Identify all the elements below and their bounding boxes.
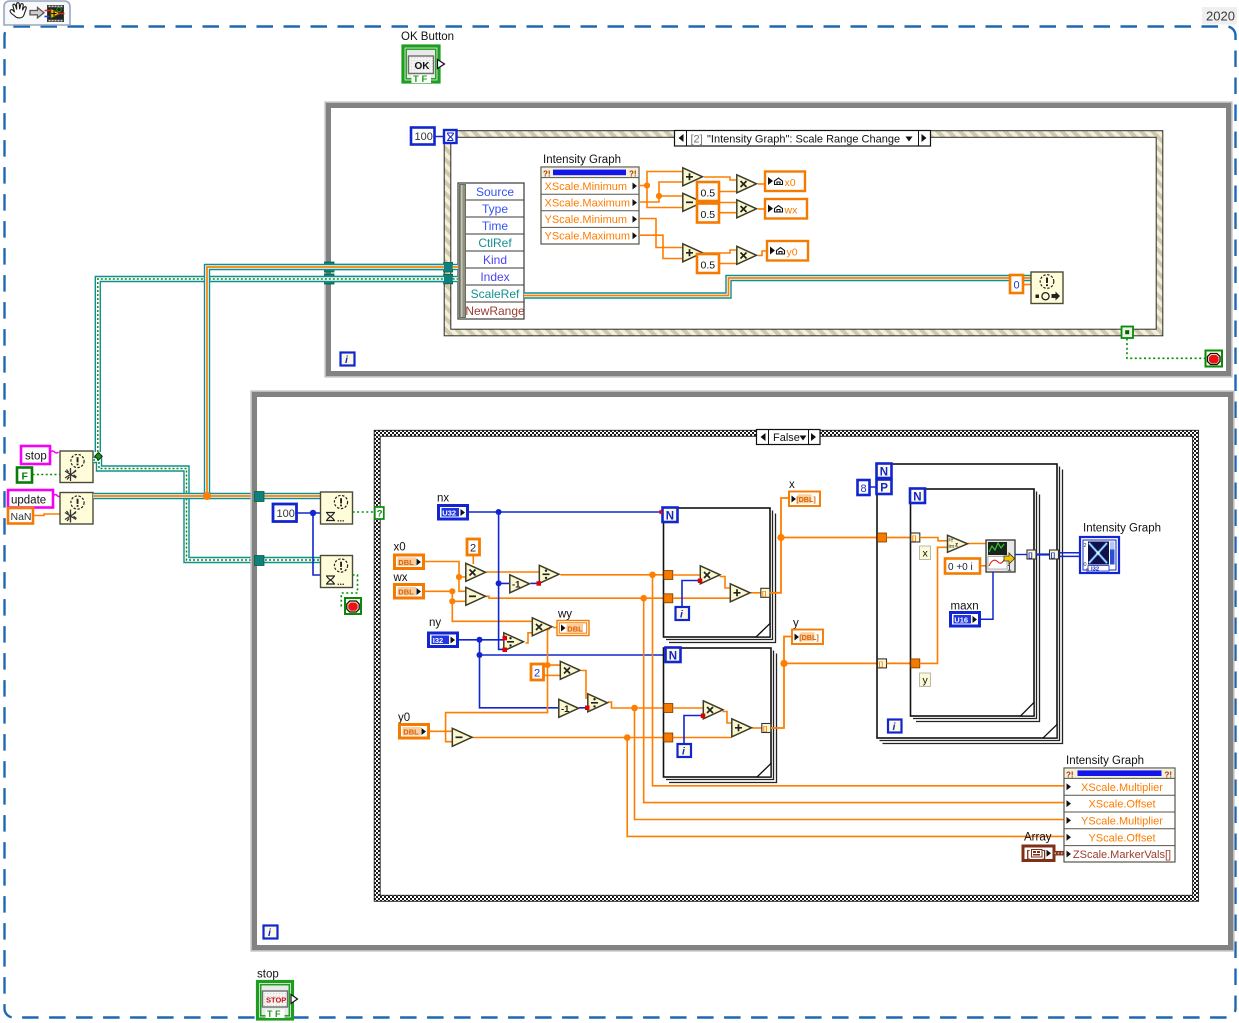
add function (for A) xyxy=(730,584,750,602)
junction dots feed wires xyxy=(624,572,656,741)
coercion mark N (for A) xyxy=(660,510,664,515)
svg-text:wx: wx xyxy=(393,572,408,584)
svg-text:]: ] xyxy=(1043,850,1046,861)
property node 2 (Intensity Graph write) xyxy=(1064,768,1175,862)
hand tool icon xyxy=(10,3,26,18)
junction dot y wire xyxy=(780,660,787,667)
junction dots nx xyxy=(496,509,502,515)
svg-text:Array: Array xyxy=(1024,832,1052,844)
svg-text:update: update xyxy=(11,495,46,507)
2D array wire to intensity graph xyxy=(1059,553,1081,557)
OK Button terminal xyxy=(403,46,445,85)
inner for loop count terminal N xyxy=(910,489,925,504)
tunnel inner in y xyxy=(911,659,920,668)
boolean wire wait1 to case selector xyxy=(353,511,376,513)
wire label x xyxy=(920,546,931,560)
subVI send notification (error ring) xyxy=(1031,272,1063,304)
boolean wire to loop stop terminal xyxy=(1127,339,1205,359)
blue wires nx xyxy=(468,512,661,649)
svg-text:wx: wx xyxy=(784,204,799,216)
coercion dot (for B multiply) xyxy=(701,714,706,719)
tunnel (loop1, stop notifier wire) xyxy=(325,274,335,284)
divide function (wy calc) xyxy=(504,633,524,651)
svg-text:2: 2 xyxy=(470,543,476,555)
wires inside for B xyxy=(673,707,703,709)
feed wires to property node 2 xyxy=(627,575,1064,837)
svg-text:2020: 2020 xyxy=(1206,9,1235,24)
for loop A count terminal N xyxy=(663,508,678,523)
svg-text:YScale.Multiplier: YScale.Multiplier xyxy=(1081,816,1163,828)
add function (y) xyxy=(683,244,703,262)
svg-text:DBL: DBL xyxy=(398,558,414,567)
for loop B frame xyxy=(664,648,777,783)
svg-text:[DBL]: [DBL] xyxy=(799,633,819,642)
control terminal nx (U32) xyxy=(439,506,468,520)
indicator terminal wy (DBL) xyxy=(557,621,589,636)
output tunnel for A xyxy=(761,588,770,597)
wires wy cluster xyxy=(429,628,665,742)
svg-text:re: re xyxy=(949,538,954,544)
svg-text:maxn: maxn xyxy=(951,601,979,613)
multiply function (wy*2) xyxy=(560,661,580,679)
wire for B to y indicator and outer loop xyxy=(771,637,878,729)
control terminal wx (DBL) xyxy=(395,585,424,599)
svg-text:[]: [] xyxy=(879,661,883,668)
svg-text:0: 0 xyxy=(1086,568,1089,574)
constant 2 (y) xyxy=(531,664,544,680)
while loop 1 border xyxy=(325,102,1232,377)
control terminal Array (cluster array) xyxy=(1023,846,1054,861)
for loop A frame xyxy=(664,508,776,643)
tunnel inner in x xyxy=(911,533,920,542)
svg-text:Kind: Kind xyxy=(483,253,507,267)
svg-text:N: N xyxy=(880,467,888,479)
control terminal x0 (DBL) xyxy=(395,555,424,569)
notifier refnum wire (loop1 inside) xyxy=(334,264,444,270)
svg-text:y: y xyxy=(923,675,929,687)
parallelism terminal P xyxy=(877,480,892,495)
multiply function (for A) xyxy=(700,566,720,584)
case selector tunnel ? xyxy=(375,507,384,520)
event structure border xyxy=(444,131,1163,336)
svg-text:y0: y0 xyxy=(787,246,798,258)
svg-text:[2]: [2] xyxy=(691,133,703,145)
svg-text:[]: [] xyxy=(912,535,916,542)
divide function (y step) xyxy=(588,694,608,712)
svg-text:2: 2 xyxy=(534,668,540,680)
while loop 2 border xyxy=(251,391,1234,951)
wires outer to inner loop xyxy=(887,537,911,539)
constant 100 (loop2) xyxy=(273,504,297,522)
svg-text:Time: Time xyxy=(482,219,509,233)
orange wires x cluster xyxy=(425,555,664,621)
tunnel for A in 1 xyxy=(664,571,673,580)
wait for notification node 2 xyxy=(321,556,353,588)
svg-text:0.5: 0.5 xyxy=(701,260,716,272)
svg-text:2: 2 xyxy=(1084,543,1087,549)
svg-text:P: P xyxy=(880,483,888,495)
cluster array wire to property node xyxy=(1055,851,1065,856)
svg-text:N: N xyxy=(913,492,921,504)
outer for loop count terminal N xyxy=(877,464,892,479)
svg-text:T F: T F xyxy=(267,1009,281,1019)
stop notifier refnum wire (dotted teal bundle) xyxy=(93,279,444,560)
svg-text:x: x xyxy=(923,548,929,560)
svg-text:Type: Type xyxy=(482,202,508,216)
svg-text:100: 100 xyxy=(277,508,295,520)
tunnel outer in y xyxy=(878,659,887,668)
svg-text:...: ... xyxy=(337,514,345,524)
svg-text:NaN: NaN xyxy=(11,511,32,523)
tunnel (loop1, notifier wire) xyxy=(325,262,335,272)
wires inside for A xyxy=(673,574,700,576)
tunnel for A in 2 xyxy=(664,594,673,603)
svg-text:XScale.Multiplier: XScale.Multiplier xyxy=(1081,782,1163,794)
obtain notifier node (stop) xyxy=(60,451,93,483)
wire subVI to tunnels xyxy=(1015,554,1027,556)
svg-text:Index: Index xyxy=(480,270,509,284)
coercion dot divide x xyxy=(537,581,542,586)
svg-text:Source: Source xyxy=(476,185,514,199)
junction (stop notifier) xyxy=(95,453,103,461)
svg-text:y0: y0 xyxy=(398,712,410,724)
svg-text:[DBL]: [DBL] xyxy=(796,495,816,504)
run arrow icon xyxy=(30,8,44,18)
reciprocal function -1 (y) xyxy=(559,699,579,717)
subVI intensity point xyxy=(986,540,1015,573)
svg-text:0.5: 0.5 xyxy=(701,209,716,221)
svg-text:XScale.Minimum: XScale.Minimum xyxy=(545,181,628,193)
obtain notifier node (update) xyxy=(60,493,93,525)
constant 0 (error code) xyxy=(1010,275,1031,293)
subtract function (y0) xyxy=(452,728,472,746)
event structure input tunnel 2 xyxy=(444,274,453,284)
multiply function (x0) xyxy=(737,175,757,193)
wire label y xyxy=(920,673,931,687)
event structure output tunnel (green) xyxy=(1122,327,1134,339)
coercion dot (for A multiply) xyxy=(698,579,703,584)
svg-text:ny: ny xyxy=(429,617,441,629)
svg-text:I32: I32 xyxy=(433,636,443,645)
svg-text:YScale.Offset: YScale.Offset xyxy=(1088,832,1155,844)
wait for notification node 1 xyxy=(321,492,353,524)
wire 100 to timeout xyxy=(435,136,444,138)
control terminal maxn (U16) xyxy=(951,613,980,627)
boolean constant F xyxy=(17,468,60,483)
svg-text:[]: [] xyxy=(762,590,766,597)
svg-text:stop: stop xyxy=(257,969,279,981)
event timeout terminal (hourglass) xyxy=(444,130,457,143)
while loop 2 stop terminal xyxy=(345,598,361,614)
output tunnel for B xyxy=(762,724,771,733)
coercion dot divide y xyxy=(585,706,590,711)
wire maxn to subVI xyxy=(980,572,993,619)
svg-text:F: F xyxy=(22,471,29,483)
svg-text:8: 8 xyxy=(861,483,867,495)
junction dot (100 wire) xyxy=(310,510,316,516)
add function (x) xyxy=(683,168,703,186)
label 2020 xyxy=(1202,7,1237,25)
svg-text:DBL: DBL xyxy=(567,624,583,633)
constant 8 xyxy=(858,480,877,495)
svg-text:x0: x0 xyxy=(785,177,796,189)
local variable wx xyxy=(765,199,807,219)
while loop 1 stop terminal xyxy=(1206,351,1223,367)
svg-text:ZScale.MarkerVals[]: ZScale.MarkerVals[] xyxy=(1073,849,1171,861)
tunnel for B in 1 xyxy=(664,704,673,713)
svg-text:I32: I32 xyxy=(1091,567,1099,573)
svg-text:im: im xyxy=(949,544,955,550)
re/im to complex function xyxy=(948,535,968,552)
tunnel for B in 2 xyxy=(664,733,673,742)
junction dot x wire xyxy=(777,534,784,541)
multiply function (wy) xyxy=(532,618,552,636)
svg-text:[]: [] xyxy=(1051,552,1055,559)
svg-text:False: False xyxy=(773,432,800,444)
VI film icon xyxy=(45,5,65,22)
string constant update xyxy=(8,490,61,508)
svg-text:YScale.Minimum: YScale.Minimum xyxy=(545,214,628,226)
junction dots ny xyxy=(477,637,483,643)
svg-text:x: x xyxy=(789,479,795,491)
svg-text:N: N xyxy=(666,511,674,523)
junction dots wx/x0 xyxy=(449,588,455,594)
subtract function (x) xyxy=(466,587,486,605)
svg-text:DBL: DBL xyxy=(403,727,419,736)
multiply function (for B) xyxy=(703,701,723,719)
svg-text:NewRange: NewRange xyxy=(465,304,525,318)
divide function (x step) xyxy=(539,565,559,583)
svg-text:CtlRef: CtlRef xyxy=(478,236,512,250)
stop button control terminal xyxy=(258,982,298,1020)
constant 0.5 (x add) xyxy=(697,182,719,201)
for loop A iteration terminal i xyxy=(676,607,690,621)
constant 2 (x) xyxy=(467,539,480,555)
constant 0.5 (y) xyxy=(697,254,719,273)
wires property node 1 to arithmetic xyxy=(639,172,767,264)
while loop 1 iteration terminal i xyxy=(341,353,355,367)
event structure input tunnel 1 xyxy=(444,263,453,273)
wire 100 to wait nodes xyxy=(297,513,320,575)
boolean wire wait2 to stop terminal xyxy=(341,575,357,606)
svg-text:0.5: 0.5 xyxy=(701,188,716,200)
subtract function (x) xyxy=(683,193,703,211)
tunnel (loop2, update notifier) xyxy=(255,492,265,502)
svg-text:1: 1 xyxy=(1007,563,1012,573)
indicator terminal x (DBL array) xyxy=(789,492,820,507)
coercion dots divide wy xyxy=(503,636,508,641)
multiply function (y0) xyxy=(737,246,757,264)
wire junction dots xyxy=(644,182,662,199)
outer for loop iteration terminal i xyxy=(888,720,902,734)
svg-text:U16: U16 xyxy=(954,615,968,624)
svg-text:XScale.Maximum: XScale.Maximum xyxy=(545,197,631,209)
constant 0 + 0 i xyxy=(945,559,980,574)
svg-text:[]: [] xyxy=(763,726,767,733)
svg-text:N: N xyxy=(669,651,677,663)
constant 100 (timeout) xyxy=(411,128,435,145)
svg-text:0 +0 i: 0 +0 i xyxy=(948,562,973,573)
svg-text:[]: [] xyxy=(1028,552,1032,559)
reciprocal function -1 (x) xyxy=(510,575,530,593)
local variable x0 xyxy=(765,172,805,192)
svg-text:wy: wy xyxy=(557,609,572,621)
svg-text:DBL: DBL xyxy=(398,587,414,596)
svg-text:Intensity Graph: Intensity Graph xyxy=(543,154,621,166)
svg-text:U32: U32 xyxy=(442,508,456,517)
outer loop output tunnel xyxy=(1050,550,1059,559)
indicator terminal y (DBL array) xyxy=(792,630,823,645)
blue wires ny xyxy=(458,640,667,708)
wire stubs into event data node xyxy=(453,267,458,279)
outer for loop frame xyxy=(877,464,1063,744)
control terminal ny (I32) xyxy=(429,633,458,647)
multiply function (x0*2) xyxy=(466,563,486,581)
svg-text:Intensity Graph: Intensity Graph xyxy=(1066,755,1144,767)
wires inside inner loop xyxy=(920,538,986,664)
svg-text:OK: OK xyxy=(415,61,431,72)
for loop B count terminal N xyxy=(666,648,681,663)
property node 1 (Intensity Graph read) xyxy=(541,167,639,244)
numeric constant NaN xyxy=(8,508,60,524)
event data node xyxy=(458,183,525,319)
ScaleRef refnum wire bundle to subVI xyxy=(524,278,1031,296)
update notifier refnum wire (teal/orange bundle) xyxy=(93,267,444,496)
indicator terminal Intensity Graph xyxy=(1080,537,1119,574)
svg-text:"Intensity Graph": Scale Range: "Intensity Graph": Scale Range Change xyxy=(707,133,900,145)
wire for A to x indicator and outer loop xyxy=(770,498,878,593)
while loop 2 iteration terminal i xyxy=(264,926,278,940)
svg-text:XScale.Offset: XScale.Offset xyxy=(1088,799,1155,811)
svg-text:nx: nx xyxy=(437,493,449,505)
for loop B iteration terminal i xyxy=(678,744,692,758)
string constant stop xyxy=(21,446,59,464)
svg-text:0: 0 xyxy=(1014,280,1020,292)
svg-text:OK Button: OK Button xyxy=(401,31,454,43)
svg-text:100: 100 xyxy=(415,131,433,143)
multiply function (wx) xyxy=(737,200,757,218)
svg-text:ScaleRef: ScaleRef xyxy=(471,287,520,301)
tunnel (loop2, stop notifier) xyxy=(255,556,265,566)
svg-text:Intensity Graph: Intensity Graph xyxy=(1083,523,1161,535)
local variable y0 xyxy=(767,241,808,261)
svg-text:stop: stop xyxy=(25,451,47,463)
inner loop output tunnel xyxy=(1027,550,1036,559)
svg-text:y: y xyxy=(793,618,799,630)
svg-text:T F: T F xyxy=(413,74,427,85)
svg-text:?: ? xyxy=(377,509,383,520)
case selector label False xyxy=(757,430,821,445)
junction dot (update wire) xyxy=(203,492,211,500)
inner for loop frame xyxy=(911,489,1040,722)
svg-text:...: ... xyxy=(337,577,345,587)
tunnel outer in x xyxy=(878,533,887,542)
stop notifier wire (loop1 inside) xyxy=(334,276,444,282)
case structure border xyxy=(374,430,1198,901)
event case header xyxy=(675,131,931,147)
constant 0.5 (x sub) xyxy=(697,204,719,223)
toolbar tab xyxy=(4,1,70,25)
svg-text:STOP: STOP xyxy=(266,996,286,1005)
junction dots wy xyxy=(544,624,550,630)
svg-text:x0: x0 xyxy=(394,542,406,554)
add function (for B) xyxy=(732,719,752,737)
control terminal y0 (DBL) xyxy=(400,725,429,739)
svg-text:YScale.Maximum: YScale.Maximum xyxy=(545,231,631,243)
